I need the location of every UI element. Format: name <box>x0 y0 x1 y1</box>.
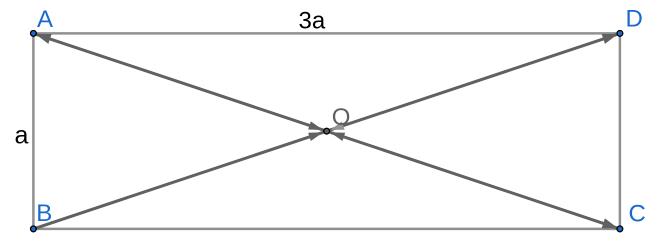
svg-text:O: O <box>332 104 351 131</box>
diagonal AC <box>33 33 620 229</box>
point C <box>617 226 623 232</box>
side DC (right edge) <box>619 33 622 229</box>
svg-text:3a: 3a <box>299 8 326 35</box>
side AB (left edge) <box>32 33 35 229</box>
point B <box>31 226 37 232</box>
arrowhead at O from C (vector CO tip) <box>330 132 345 141</box>
point O (center) <box>324 128 330 134</box>
point A <box>31 31 37 37</box>
arrowhead at A (vector OA tip) <box>35 34 51 44</box>
arrowhead at O from B (vector BO tip) <box>308 132 323 141</box>
svg-text:C: C <box>629 200 646 227</box>
arrowhead at O from A (vector AO tip) <box>308 121 323 130</box>
side BC (bottom edge) <box>33 228 620 231</box>
point D <box>617 31 623 37</box>
svg-text:D: D <box>626 6 643 33</box>
svg-text:B: B <box>36 200 52 227</box>
arrowhead at D (vector BD tip) <box>602 34 618 44</box>
diagonal BD <box>33 33 620 229</box>
arrowhead at O from D (vector DO tip) <box>330 121 344 129</box>
svg-text:A: A <box>37 6 53 33</box>
arrowhead at C (vector AC tip) <box>602 218 618 228</box>
svg-text:a: a <box>15 122 29 150</box>
side AD (top edge) <box>33 32 620 35</box>
